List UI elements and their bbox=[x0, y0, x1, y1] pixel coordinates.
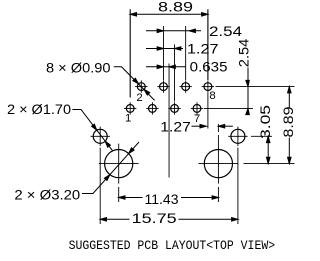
pin 3 hole bbox=[146, 102, 158, 114]
svg-text:1.27: 1.27 bbox=[160, 119, 191, 134]
dimension 11.43 bottom bbox=[119, 196, 219, 200]
wire big hole row extension right bbox=[244, 163, 295, 165]
svg-text:0.635: 0.635 bbox=[190, 60, 228, 75]
wire extension line pin8 column lower bbox=[207, 93, 209, 129]
wire pin8 row extension right bbox=[216, 86, 295, 88]
svg-text:2 × Ø1.70: 2 × Ø1.70 bbox=[7, 102, 71, 117]
wire center axis vertical bbox=[168, 64, 170, 178]
pin 5 hole bbox=[168, 102, 180, 114]
dimension 2.54 vertical right chain bbox=[247, 68, 249, 114]
dimension 0.635 row bbox=[146, 66, 186, 68]
wire left big hole extension down bbox=[118, 187, 120, 202]
pin 4 hole bbox=[157, 80, 169, 92]
wire right big hole centerline extension up bbox=[217, 124, 219, 144]
svg-text:11.43: 11.43 bbox=[145, 192, 179, 207]
dimension 1.27 bottom row bbox=[192, 124, 233, 128]
wire pin7 row extension right bbox=[204, 107, 253, 109]
svg-text:1: 1 bbox=[125, 113, 131, 125]
wire extension line pin1 column bbox=[129, 9, 131, 97]
wire extension line pin5 column bbox=[174, 45, 176, 102]
leader 8xO0.90 to pin2 bbox=[114, 67, 155, 101]
svg-text:2 × Ø3.20: 2 × Ø3.20 bbox=[14, 187, 80, 202]
dimension 15.75 bottom bbox=[100, 218, 238, 222]
wire extension line pin8 column upper bbox=[207, 9, 209, 80]
pin 8 hole bbox=[202, 80, 214, 92]
svg-text:3.05: 3.05 bbox=[258, 105, 273, 139]
pin 1 hole bbox=[124, 102, 136, 114]
dimension 8.89 vertical right bbox=[288, 87, 290, 108]
pin 6 hole bbox=[179, 80, 191, 92]
leader 2xO1.70 to left side hole bbox=[72, 110, 113, 152]
wire extension line right side-hole column down bbox=[237, 148, 239, 225]
svg-text:15.75: 15.75 bbox=[132, 211, 177, 226]
dimension 8.89 top line bbox=[130, 13, 208, 15]
wire side hole row extension right bbox=[251, 135, 272, 137]
side hole left O1.70 bbox=[91, 127, 110, 146]
big hole left O3.20 bbox=[99, 144, 139, 184]
svg-text:1.27: 1.27 bbox=[187, 41, 219, 56]
dimension 1.27 top row bbox=[146, 48, 183, 50]
dimension 2.54 top row bbox=[146, 30, 201, 32]
dimension 3.05 vertical right bbox=[267, 136, 269, 163]
svg-text:2: 2 bbox=[136, 92, 142, 104]
leader 2xO3.20 diameter line through left big hole bbox=[82, 142, 139, 194]
wire extension line pin4 column bbox=[162, 26, 164, 80]
wire extension line left side-hole column down bbox=[99, 148, 101, 225]
pin 2 hole bbox=[135, 80, 147, 92]
svg-text:7: 7 bbox=[194, 113, 200, 125]
wire extension line pin6 column bbox=[185, 26, 187, 80]
svg-text:SUGGESTED PCB LAYOUT<TOP VIEW>: SUGGESTED PCB LAYOUT<TOP VIEW> bbox=[69, 238, 276, 253]
svg-text:8: 8 bbox=[209, 90, 215, 102]
svg-text:8.89: 8.89 bbox=[281, 107, 296, 138]
svg-text:8 × Ø0.90: 8 × Ø0.90 bbox=[46, 61, 111, 76]
wire right big hole extension down bbox=[217, 187, 219, 202]
svg-text:2.54: 2.54 bbox=[209, 24, 243, 39]
side hole right O1.70 bbox=[228, 127, 247, 146]
svg-text:2.54: 2.54 bbox=[237, 38, 252, 67]
svg-text:8.89: 8.89 bbox=[158, 0, 193, 15]
pin 7 hole bbox=[191, 102, 203, 114]
big hole right O3.20 bbox=[198, 144, 238, 184]
